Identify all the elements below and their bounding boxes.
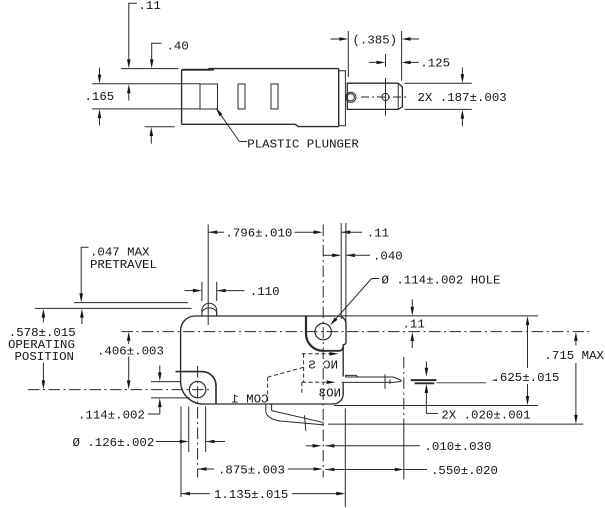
- dimension .715 MAX: [574, 332, 578, 424]
- svg-text:NO3: NO3: [319, 386, 341, 400]
- dimension .796: [208, 230, 322, 234]
- top-right hole pocket: [306, 316, 323, 351]
- dimension .875: [198, 467, 323, 471]
- PLASTIC PLUNGER leader: [214, 107, 247, 142]
- blade tip centerline vertical dash-dot: [403, 357, 405, 428]
- hole centerline horizontal dash-dot: [122, 331, 591, 333]
- clip slot outer: [346, 92, 356, 102]
- svg-text:1.135±.015: 1.135±.015: [214, 488, 288, 502]
- dimension .165 arrows: [98, 68, 102, 126]
- svg-text:.796±.010: .796±.010: [225, 227, 292, 241]
- dimension .625: [526, 316, 530, 405]
- dimension 1.135: [181, 492, 345, 496]
- blade extension thin line: [437, 382, 487, 384]
- dimension .40 lower arrow: [150, 127, 154, 144]
- plunger button operating position: [202, 308, 217, 316]
- svg-text:PRETRAVEL: PRETRAVEL: [90, 258, 157, 272]
- mounting hole top: [315, 323, 331, 339]
- lower reference line right: [328, 423, 583, 425]
- rib slot 1 (wide): [200, 84, 218, 109]
- free position reference line: [74, 302, 188, 304]
- svg-text:Ø .114±.002 HOLE: Ø .114±.002 HOLE: [382, 274, 501, 288]
- pocket ledge: [323, 347, 343, 351]
- svg-text:.550±.020: .550±.020: [431, 464, 498, 478]
- svg-text:.715 MAX: .715 MAX: [545, 349, 605, 363]
- svg-text:POSITION: POSITION: [15, 350, 75, 364]
- bottom-left hole boss: [176, 372, 217, 404]
- dimension .114 extension lines: [151, 381, 181, 383]
- dimension .110 extension lines: [201, 282, 203, 301]
- tip hole vertical tick: [385, 78, 387, 116]
- dimension .11 bracket and arrow: [127, 3, 137, 68]
- tip hole upper tick: [385, 54, 387, 67]
- body bottom extension line right: [334, 405, 538, 407]
- rib slot 3: [271, 84, 278, 109]
- svg-text:.010±.030: .010±.030: [425, 440, 492, 454]
- hole tangent extension verticals: [188, 407, 190, 453]
- dimension .406: [127, 332, 131, 390]
- dimension .11 (bottom): [341, 230, 362, 234]
- plunger button free position: [202, 303, 217, 316]
- housing right cap band: [339, 71, 346, 126]
- dimension .010: [306, 444, 420, 448]
- svg-text:.11: .11: [367, 227, 389, 241]
- dimension .114 arrows: [148, 366, 162, 415]
- operating position reference line: [35, 307, 192, 309]
- hole centerline vertical dash-dot: [322, 225, 324, 478]
- body right extension vertical: [344, 408, 346, 507]
- mounting hole bottom: [189, 381, 205, 397]
- dimension .11 lower arrow: [127, 84, 131, 100]
- extension line top (body top extended left): [121, 68, 178, 70]
- blade end bold marks: [411, 380, 437, 383]
- svg-text:.125: .125: [420, 57, 450, 71]
- tip hole: [382, 93, 389, 100]
- dimension .40 bracket and arrow: [150, 43, 162, 68]
- plunger shaft bottom line: [92, 108, 200, 110]
- dimension .125 arrows: [369, 61, 419, 65]
- housing body outline: [182, 69, 339, 127]
- svg-text:.040: .040: [373, 250, 403, 264]
- tip chamfer vertical: [397, 83, 399, 109]
- dimension .040: [323, 254, 370, 258]
- dimension (.385) extension lines: [347, 31, 349, 77]
- dimension .11 vertical (top line to hole CL): [411, 299, 415, 348]
- stray dash: [493, 379, 497, 381]
- COM bottom terminal: [266, 404, 323, 431]
- dimension .047 MAX PRETRAVEL bracket: [79, 247, 88, 324]
- hidden leader arrows: [330, 352, 339, 356]
- svg-text:.406±.003: .406±.003: [97, 345, 164, 359]
- dimension 2X .020: [425, 362, 438, 414]
- dimension .550: [325, 468, 427, 472]
- plunger shaft top line: [92, 83, 200, 85]
- hole leader diameter .114: [329, 279, 379, 327]
- svg-text:2X .020±.001: 2X .020±.001: [441, 408, 530, 422]
- svg-text:COM 1: COM 1: [231, 393, 268, 407]
- bottom hole centerline horizontal dash-dot: [28, 389, 211, 391]
- svg-text:.110: .110: [250, 285, 280, 299]
- svg-text:.165: .165: [85, 90, 115, 104]
- svg-text:2X .187±.003: 2X .187±.003: [418, 91, 507, 105]
- svg-text:.875±.003: .875±.003: [218, 464, 285, 478]
- dimension (.385) arrows: [331, 37, 420, 41]
- rib slot 2: [238, 84, 245, 109]
- tip centerline: [361, 96, 407, 98]
- dimension 2X .187 extension lines: [405, 82, 472, 84]
- dimension .578 operating position: [42, 309, 46, 390]
- bottom hole centerline vertical dash-dot: [197, 366, 199, 478]
- NC blade terminal: [342, 374, 402, 389]
- svg-text:NC S: NC S: [308, 358, 338, 372]
- dimension .40 lower extension line: [145, 126, 175, 128]
- body left extension vertical: [180, 407, 182, 498]
- clip slot inner: [347, 94, 355, 101]
- dimension .110 arrows: [185, 289, 245, 293]
- terminal extension verticals (.11/.040): [340, 223, 342, 319]
- dimension diameter .126: [156, 440, 225, 444]
- body outline main: [181, 316, 346, 404]
- svg-text:.11: .11: [139, 0, 161, 13]
- dimension 2X .187 arrows: [461, 68, 465, 127]
- svg-text:PLASTIC PLUNGER: PLASTIC PLUNGER: [247, 138, 359, 152]
- button centerline vertical: [207, 225, 209, 326]
- svg-text:(.385): (.385): [353, 34, 398, 48]
- svg-text:.40: .40: [167, 40, 189, 54]
- svg-text:.114±.002: .114±.002: [78, 409, 145, 423]
- body top extension line right: [341, 315, 538, 317]
- hidden mechanism dashed lines: [268, 354, 333, 402]
- svg-text:Ø .126±.002: Ø .126±.002: [73, 436, 155, 450]
- svg-text:.625±.015: .625±.015: [493, 371, 560, 385]
- svg-text:.11: .11: [403, 318, 425, 332]
- actuator tip outline: [347, 83, 402, 109]
